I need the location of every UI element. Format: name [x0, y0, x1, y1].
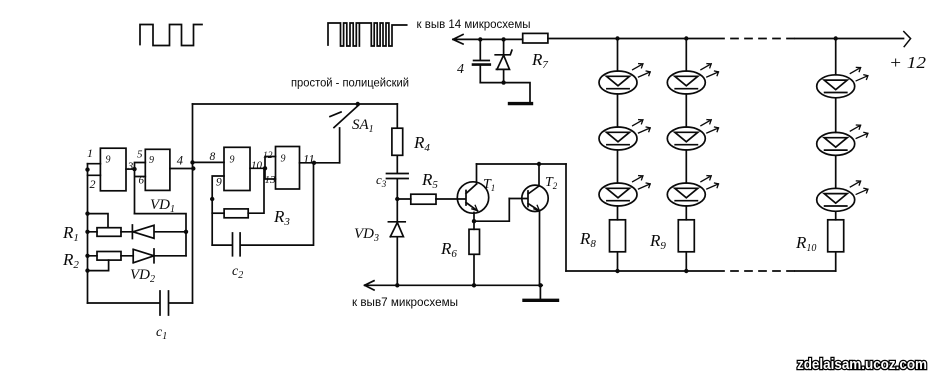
node dot pin10	[263, 166, 267, 170]
svg-text:9: 9	[149, 155, 154, 166]
svg-text:VD2: VD2	[130, 267, 155, 285]
node dot (cap junction)	[478, 37, 482, 41]
node dot chain3 top	[834, 36, 838, 40]
node dot R2 left	[85, 254, 89, 258]
node dot VD1 out	[184, 230, 188, 234]
arrow to pin 7	[365, 281, 374, 290]
resistor R4	[396, 104, 398, 173]
gate U1.3	[224, 147, 250, 190]
transistor T1	[436, 164, 489, 221]
capacitor C3	[387, 174, 409, 200]
node dot rail step A	[85, 211, 89, 215]
svg-text:к выв7 микросхемы: к выв7 микросхемы	[352, 295, 458, 309]
svg-text:3: 3	[127, 161, 134, 173]
node dot R5/VD3	[395, 197, 399, 201]
svg-text:c3: c3	[376, 172, 387, 189]
wire T1 emitter to T2 base	[474, 199, 509, 222]
svg-text:9: 9	[281, 154, 286, 165]
resistor R2	[97, 252, 121, 261]
wire (cap/diode bottom)	[480, 83, 530, 103]
node dot bus c2	[684, 269, 688, 273]
wire gate3 input 2	[212, 176, 224, 245]
svg-text:к выв 14 микросхемы: к выв 14 микросхемы	[417, 17, 531, 31]
resistor R3 (feedback)	[224, 209, 248, 218]
node dot gate1 in	[85, 167, 89, 171]
node dot pin4	[191, 166, 195, 170]
rail dashes	[731, 38, 794, 40]
LED chain 3 wire	[835, 39, 837, 272]
svg-text:9: 9	[106, 155, 111, 166]
node dot pin11	[312, 161, 316, 165]
node dot T1 emitter/R6	[472, 219, 476, 223]
gate U1.1	[100, 148, 126, 191]
wire step B	[88, 260, 109, 271]
capacitor C1	[88, 291, 193, 315]
ground (T2 emitter)	[539, 285, 541, 299]
zener diode VD	[495, 39, 512, 82]
svg-text:T1: T1	[483, 177, 495, 193]
wire R1	[88, 231, 133, 233]
wire gate4 output (pin 11)	[300, 162, 340, 164]
wire step A	[88, 214, 109, 228]
node dot pin3	[132, 167, 136, 171]
ground (near R7)	[510, 102, 532, 105]
svg-text:R2: R2	[62, 250, 79, 271]
node dot chain2 top	[684, 36, 688, 40]
wire pin 8	[193, 161, 225, 163]
resistor R6	[473, 221, 475, 285]
waveform square icon	[140, 25, 202, 46]
svg-text:4: 4	[177, 154, 183, 168]
LED bottom bus	[566, 270, 836, 272]
svg-text:T2: T2	[545, 175, 558, 191]
svg-text:R5: R5	[421, 170, 438, 191]
resistor R9	[678, 220, 694, 252]
svg-text:VD3: VD3	[354, 226, 379, 244]
resistor R8	[610, 220, 626, 252]
wire node3 to VD junction	[135, 214, 187, 256]
wire gate3 output (pin 10)	[250, 167, 265, 169]
svg-text:R7: R7	[531, 50, 548, 71]
node dot T2 emitter bottom	[538, 283, 542, 287]
LED D2	[599, 120, 650, 150]
LED D6	[667, 176, 718, 206]
svg-text:2: 2	[90, 177, 96, 191]
capacitor 4 (filter cap)	[473, 39, 490, 82]
LED D4	[667, 64, 718, 94]
bus dashes	[731, 270, 794, 272]
wire gate1 output (pin 3)	[126, 168, 135, 170]
svg-text:4: 4	[457, 62, 464, 77]
svg-text:R1: R1	[62, 223, 79, 244]
transistor T2	[509, 164, 548, 285]
svg-text:zdelaisam.ucoz.com: zdelaisam.ucoz.com	[797, 357, 927, 373]
LED chain 1 wire	[617, 39, 619, 272]
collector rail	[477, 163, 567, 165]
svg-text:SA1: SA1	[352, 117, 374, 135]
gate U1.2	[145, 149, 170, 190]
node dot bus c1	[615, 269, 619, 273]
wire R2	[88, 255, 134, 257]
svg-text:R4: R4	[413, 133, 430, 154]
node dot (diode junction)	[501, 37, 505, 41]
LED D7	[817, 67, 868, 97]
diode VD2	[133, 249, 186, 263]
svg-text:13: 13	[265, 174, 277, 186]
svg-text:c1: c1	[156, 325, 167, 342]
svg-text:R6: R6	[440, 239, 457, 260]
mid rail x=193	[192, 104, 194, 303]
+12 rail	[548, 38, 904, 40]
wire (bus to collector rail riser)	[565, 164, 567, 271]
node dot R1 left	[85, 230, 89, 234]
node dot chain1 top	[615, 36, 619, 40]
bottom (pin 7) bus	[365, 284, 543, 286]
LED D9	[817, 181, 868, 211]
left rail	[87, 164, 89, 303]
svg-text:8: 8	[210, 151, 216, 163]
capacitor C2	[212, 163, 313, 256]
node dot gate3 in2	[210, 197, 214, 201]
svg-text:R9: R9	[649, 231, 666, 252]
svg-text:9: 9	[216, 177, 222, 189]
node dot rail step B	[85, 268, 89, 272]
+12 arrow	[904, 32, 911, 47]
svg-text:1: 1	[87, 146, 93, 160]
resistor R7	[523, 33, 548, 43]
arrow to pin 14	[453, 35, 523, 45]
svg-text:R10: R10	[795, 233, 816, 254]
wire gate1 inputs	[88, 164, 101, 176]
svg-text:9: 9	[230, 155, 235, 166]
svg-text:10: 10	[251, 160, 263, 172]
switch SA1	[330, 105, 359, 163]
LED D5	[667, 120, 718, 150]
svg-text:c2: c2	[232, 264, 243, 281]
LED chain 2 wire	[685, 39, 687, 272]
svg-text:R8: R8	[579, 229, 596, 250]
waveform siren icon	[328, 23, 407, 46]
wire gate2 inputs	[135, 163, 146, 214]
svg-text:VD1: VD1	[150, 197, 175, 215]
node dot T2 collector	[537, 162, 541, 166]
svg-text:простой - полицейский: простой - полицейский	[291, 76, 409, 90]
wire R3 left	[212, 212, 224, 214]
resistor R1	[97, 228, 121, 237]
gate U1.4	[276, 147, 300, 190]
node dot SA1	[356, 102, 360, 106]
resistor R10	[828, 220, 844, 252]
LED D3	[599, 176, 650, 206]
svg-text:+ 12: + 12	[889, 53, 927, 72]
svg-text:R3: R3	[273, 207, 290, 228]
LED D1	[599, 64, 650, 94]
LED D8	[817, 125, 868, 155]
node dot R6 bottom	[472, 283, 476, 287]
node dot	[501, 80, 505, 84]
svg-text:5: 5	[137, 149, 143, 161]
resistor R5	[397, 198, 436, 200]
diode VD1	[132, 225, 186, 239]
diode VD3	[388, 199, 405, 285]
wire gate2 output (pin 4)	[170, 168, 193, 170]
node dot pin8 branch	[190, 160, 194, 164]
wire R3 right riser	[248, 168, 264, 213]
top control rail	[193, 103, 398, 105]
wire gate4 inputs	[265, 157, 276, 180]
node dot VD3 bottom	[395, 283, 399, 287]
